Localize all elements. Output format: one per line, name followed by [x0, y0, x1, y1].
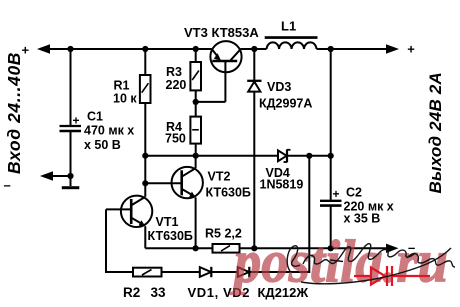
svg-text:C1: C1	[87, 110, 103, 124]
node R1 top	[142, 46, 148, 52]
wire output branch upper	[330, 49, 332, 200]
svg-text:КТ630Б: КТ630Б	[206, 186, 251, 200]
node input top (C1)	[67, 46, 73, 52]
svg-text:х 50 В: х 50 В	[84, 138, 121, 152]
svg-text:1N5819: 1N5819	[260, 178, 304, 192]
wire minus stub	[52, 175, 71, 177]
node VT1 collector / VT2 base	[142, 180, 148, 186]
watermark postila.ru	[229, 229, 448, 295]
node C2 minus / bottom rail	[328, 245, 334, 251]
resistor R2	[133, 268, 162, 277]
svg-text:+: +	[73, 114, 80, 128]
wire R4 bottom lead	[195, 144, 197, 156]
wire VD4 rail left	[145, 155, 278, 157]
node VD3 anode / bottom rail	[251, 245, 257, 251]
input plus arrow	[37, 44, 50, 54]
output plus arrow	[386, 44, 399, 54]
wire VT1 base drop	[106, 209, 133, 272]
svg-text:220: 220	[166, 78, 187, 92]
node R3 top	[193, 46, 199, 52]
node VT3 base join	[193, 99, 199, 105]
diode VD3	[247, 49, 261, 248]
watermark signature scribble	[287, 244, 455, 284]
svg-text:VT2: VT2	[208, 169, 231, 183]
wire top rail after L1	[317, 48, 390, 50]
svg-text:VD3: VD3	[267, 80, 291, 94]
capacitor C2	[320, 201, 342, 249]
diode VD2	[238, 267, 250, 277]
ground	[62, 186, 80, 189]
node feedback tap	[306, 153, 312, 159]
diode VD1	[200, 267, 212, 277]
node VD4 cathode rail right	[328, 153, 334, 159]
svg-text:10 к: 10 к	[113, 92, 137, 106]
wire R3 top lead	[195, 49, 197, 62]
node L1 right / output	[328, 46, 334, 52]
wire C1 upper	[70, 49, 72, 125]
wire bottom rail left	[145, 247, 212, 249]
svg-text:750: 750	[165, 132, 186, 146]
wire VD4 rail right	[287, 155, 331, 157]
watermark red diode doodle	[354, 266, 430, 286]
svg-text:33: 33	[151, 285, 167, 300]
wire ground stub	[70, 176, 72, 186]
wire VD1 to VD2	[211, 271, 238, 273]
svg-text:R1: R1	[114, 79, 130, 93]
node input minus	[67, 173, 73, 179]
wire top rail right segment	[241, 48, 267, 50]
wire R3-R4 link	[195, 90, 197, 116]
svg-text:470 мк х: 470 мк х	[84, 124, 134, 138]
svg-text:VT3 КТ853А: VT3 КТ853А	[184, 25, 259, 40]
node VT3 collector / VD3 cathode	[251, 46, 257, 52]
svg-text:R2: R2	[123, 285, 140, 300]
svg-text:C2: C2	[346, 185, 362, 199]
svg-text:L1: L1	[281, 19, 296, 34]
svg-text:–: –	[4, 178, 11, 193]
wire bottom rail right	[240, 247, 391, 249]
wire feedback drop	[249, 156, 309, 272]
wire R1 top lead	[144, 49, 146, 75]
svg-text:Выход 24В 2А: Выход 24В 2А	[426, 72, 445, 193]
transistor VT3	[196, 41, 242, 102]
svg-text:R3: R3	[166, 65, 182, 79]
node VT2 emitter	[193, 245, 199, 251]
svg-text:+: +	[333, 187, 340, 201]
resistor R3	[190, 62, 201, 90]
resistor R1	[140, 75, 151, 103]
svg-text:х 35 В: х 35 В	[344, 211, 381, 225]
resistor R5	[213, 244, 240, 253]
svg-text:КТ630Б: КТ630Б	[148, 229, 193, 243]
output minus arrow	[386, 244, 399, 253]
transistor VT2	[145, 156, 203, 249]
svg-text:+: +	[407, 42, 415, 57]
transistor VT1	[106, 196, 152, 249]
node R1 / VD4 rail	[142, 153, 148, 159]
diode VD4 schottky	[278, 149, 291, 162]
svg-text:КД2997А: КД2997А	[259, 97, 312, 111]
wire top rail left segment	[47, 48, 212, 50]
inductor L1	[265, 36, 318, 49]
node R4 / VT2 collector / VD4 rail	[193, 153, 199, 159]
wire R2 to VD1	[162, 271, 200, 273]
input minus arrow	[40, 171, 53, 181]
svg-text:VT1: VT1	[156, 215, 179, 229]
wire C1 lower	[70, 132, 72, 176]
resistor R4	[190, 117, 201, 144]
capacitor C1	[60, 126, 82, 131]
svg-text:Вход 24...40В: Вход 24...40В	[4, 52, 24, 174]
wire R1 bottom to VT1 collector	[144, 103, 146, 197]
